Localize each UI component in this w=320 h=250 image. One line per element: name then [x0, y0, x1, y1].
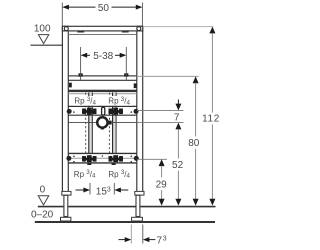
svg-text:7: 7 — [174, 113, 180, 124]
svg-text:0: 0 — [40, 184, 46, 195]
svg-text:80: 80 — [188, 138, 200, 149]
svg-text:0–20: 0–20 — [31, 209, 54, 220]
svg-text:112: 112 — [202, 113, 220, 124]
svg-text:5-38: 5-38 — [93, 51, 113, 62]
svg-text:7: 7 — [157, 235, 163, 246]
svg-text:3: 3 — [107, 187, 111, 194]
svg-text:29: 29 — [156, 179, 168, 190]
svg-text:52: 52 — [172, 160, 184, 171]
svg-text:15: 15 — [96, 187, 108, 198]
svg-text:50: 50 — [98, 3, 110, 14]
svg-text:100: 100 — [34, 23, 51, 34]
svg-text:3: 3 — [163, 235, 167, 242]
